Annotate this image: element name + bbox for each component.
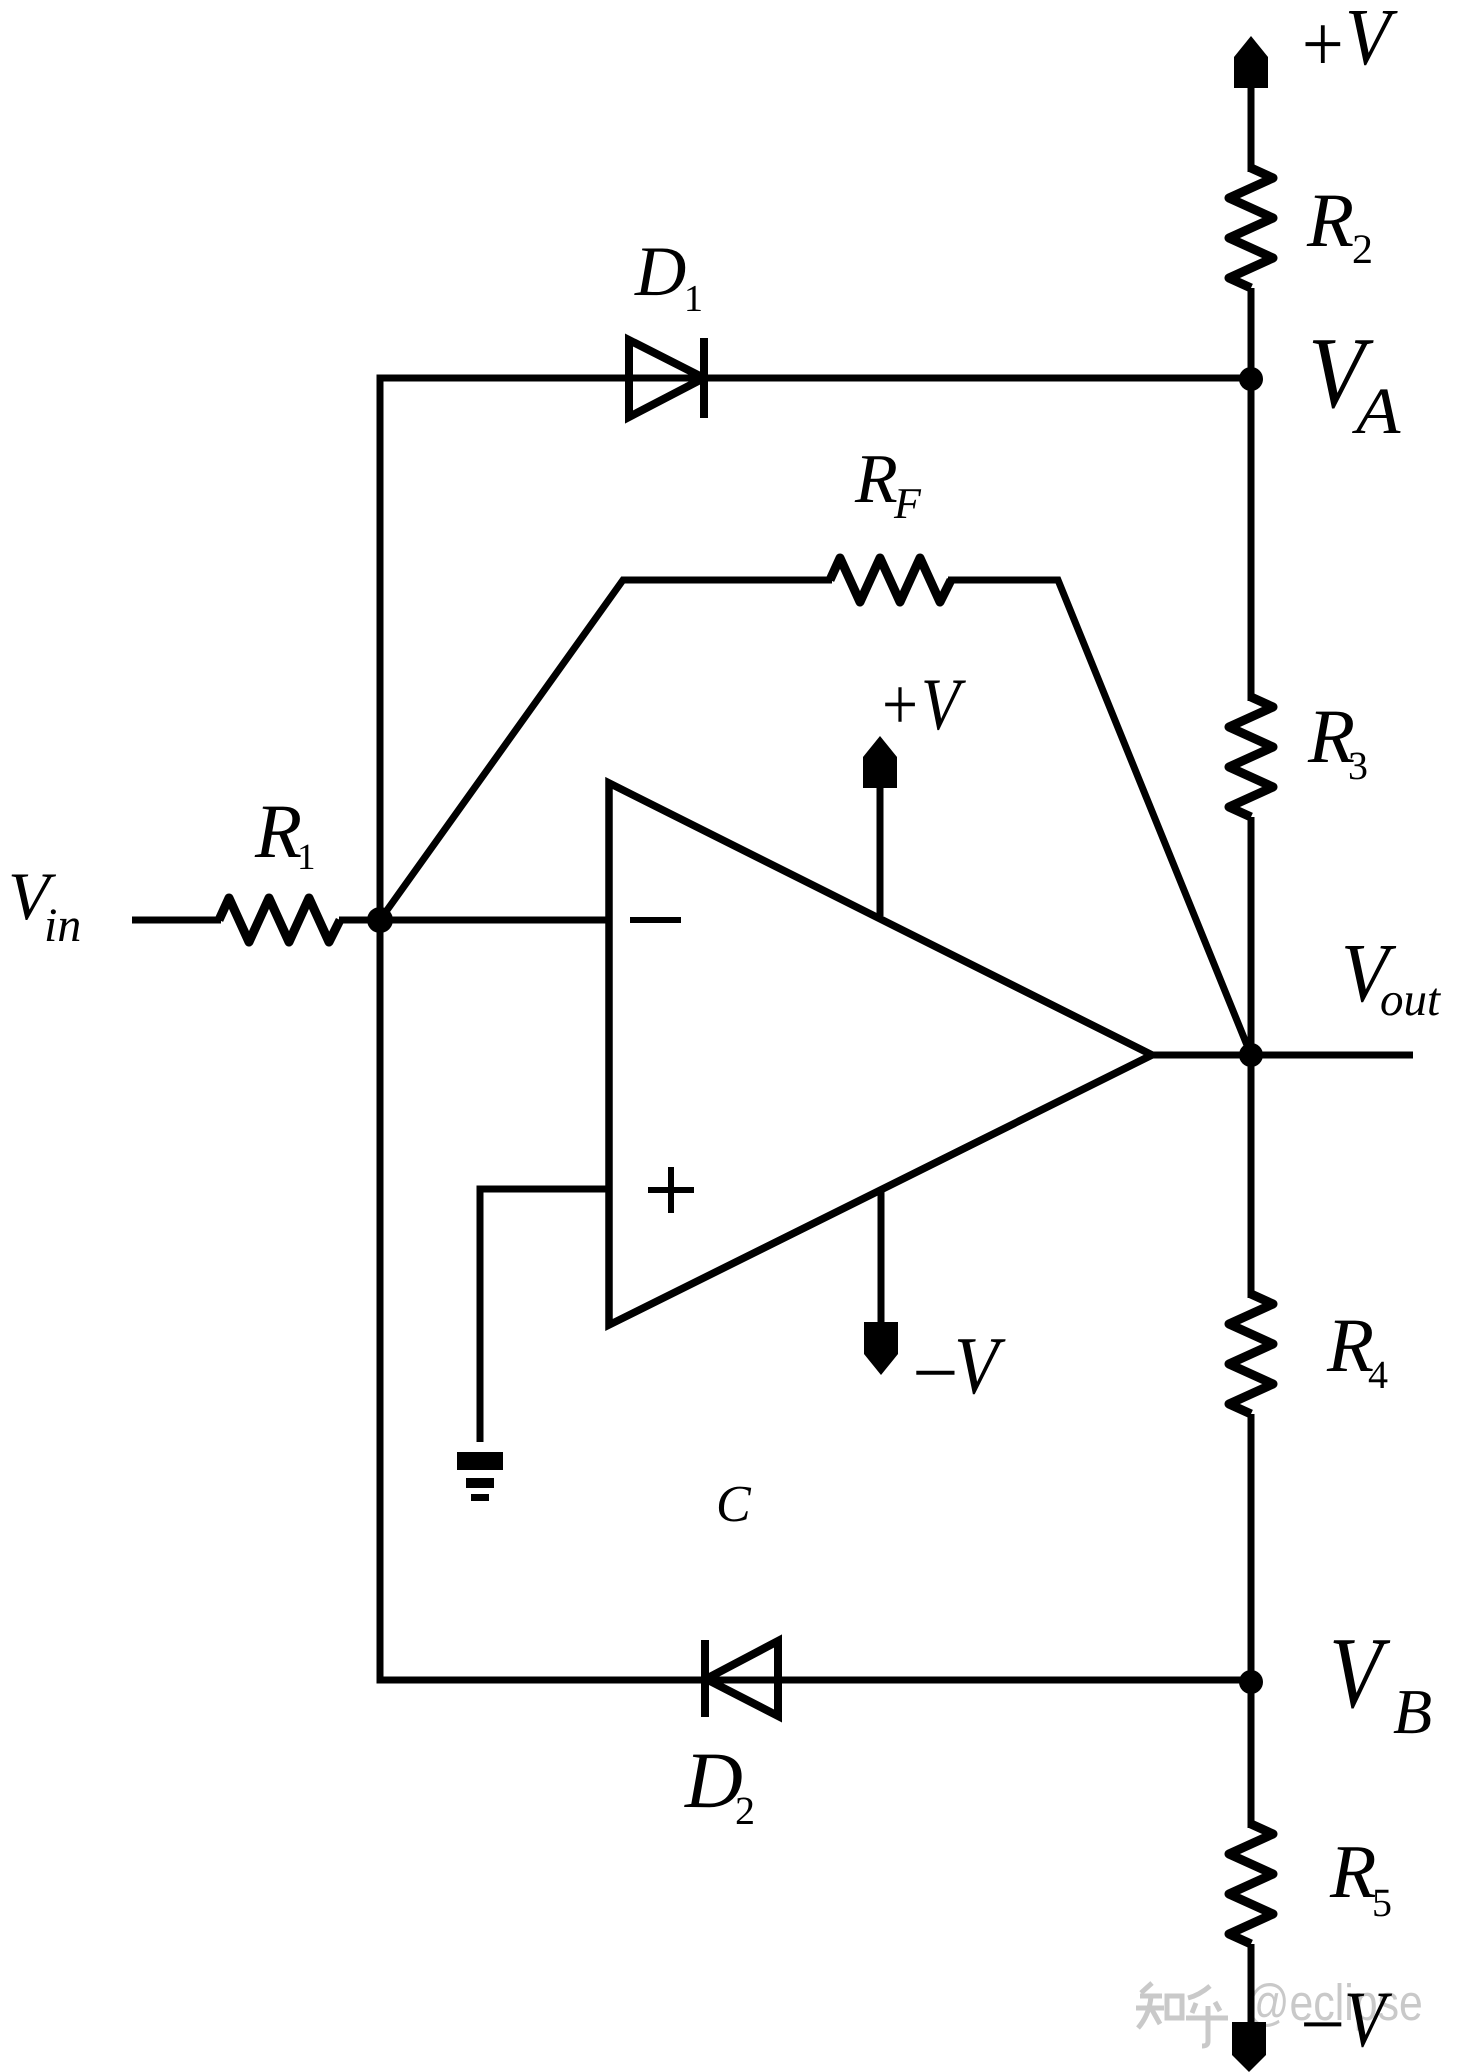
wire R3 to R4 through node Vout <box>1248 817 1255 1298</box>
wire R5 to -V <box>1248 1944 1255 2024</box>
label R3 <box>1308 712 1354 762</box>
ground <box>457 1452 503 1470</box>
label Vin <box>12 875 57 921</box>
-V supply arrow bottom <box>1232 2022 1266 2072</box>
wire RF top right + right diagonal <box>948 580 1251 1055</box>
wire Vin lead <box>132 917 221 924</box>
diode D2 <box>706 1641 778 1716</box>
node VB <box>1239 1670 1263 1694</box>
watermark zhihu @eclipse <box>1136 1983 1228 2046</box>
label VA <box>1313 340 1374 408</box>
+V power pin <box>877 788 884 916</box>
label D1 <box>634 249 685 296</box>
-V power pin <box>878 1190 885 1324</box>
op-amp U1 <box>609 783 1152 1325</box>
+V supply arrow top <box>1234 36 1268 88</box>
node junction at R1/D1/D2/RF <box>367 907 393 933</box>
resistor R4 <box>1229 1294 1273 1414</box>
wire +V to R2 <box>1248 86 1255 172</box>
label R2 <box>1307 196 1353 246</box>
resistor R1 <box>219 898 340 942</box>
wire + input <box>480 1189 609 1442</box>
label RF <box>855 456 897 502</box>
wire output <box>1152 1052 1413 1059</box>
label R4 <box>1327 1321 1373 1371</box>
label -V opamp <box>916 1371 954 1375</box>
op-amp plus sign <box>648 1187 694 1193</box>
wire R2 to R3 through node VA <box>1248 288 1255 701</box>
resistor R2 <box>1229 168 1273 288</box>
label -V bottom <box>1304 2022 1341 2026</box>
node VA <box>1239 367 1263 391</box>
node Vout <box>1239 1043 1263 1067</box>
label Vout <box>1345 946 1396 1002</box>
label R1 <box>255 807 301 857</box>
label +V opamp <box>885 681 966 731</box>
label C <box>719 1487 751 1522</box>
resistor R5 <box>1229 1824 1273 1944</box>
label R5 <box>1330 1847 1376 1897</box>
label D2 <box>684 1755 742 1808</box>
wire R4 to R5 through node VB <box>1248 1414 1255 1828</box>
op-amp minus sign <box>630 917 681 923</box>
diode D1 <box>629 340 704 417</box>
resistor RF <box>830 558 951 602</box>
label +V top <box>1306 25 1341 63</box>
wire RF left diagonal + top left <box>380 580 832 920</box>
resistor R3 <box>1229 697 1273 817</box>
label VB <box>1334 1640 1391 1708</box>
wire R1 to inverting input <box>339 917 609 924</box>
wire feedback loop (top branch, left vertical, bottom branch) <box>380 378 1251 1680</box>
